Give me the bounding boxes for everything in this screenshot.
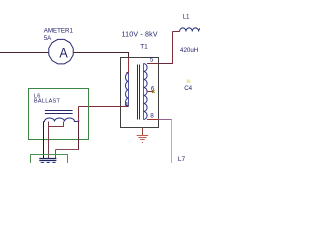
svg-text:420uH: 420uH: [180, 47, 198, 54]
wire: pin 5 out to L1 riser: [159, 63, 174, 65]
wire: ballast left lead down to starter box: [43, 122, 45, 159]
svg-text:AMETER1: AMETER1: [44, 28, 74, 35]
ammeter AMETER1 body: [49, 39, 73, 63]
wire: junction down then left to starter box: [78, 121, 80, 150]
inductor L1 (clipped at right edge): [180, 28, 205, 32]
ballast L6 box: [29, 89, 89, 140]
wire: drop into transformer primary top: [128, 53, 130, 59]
ballast inductor L6 coil: [44, 118, 79, 122]
transformer T1 primary top tick: [126, 72, 128, 74]
svg-text:5: 5: [150, 56, 154, 63]
svg-text:5A: 5A: [44, 35, 52, 42]
wire: ballast tap jog down-left to starter box: [48, 122, 50, 128]
ground wire stub: [142, 128, 144, 136]
starter box (clipped at bottom edge): [31, 155, 68, 167]
svg-text:C4: C4: [184, 85, 192, 92]
svg-text:BALLAST: BALLAST: [34, 99, 61, 105]
pin 6 stub wire: [147, 91, 153, 93]
transformer T1 secondary winding chord: [143, 64, 145, 120]
svg-text:8: 8: [150, 113, 154, 120]
svg-text:110V - 8kV: 110V - 8kV: [122, 32, 158, 39]
transformer T1 primary winding: [126, 73, 129, 107]
svg-text:L1: L1: [183, 13, 190, 20]
transformer T1 secondary winding: [144, 64, 148, 120]
pin 6 no-connect X marker: [152, 90, 155, 93]
svg-text:4: 4: [125, 101, 129, 108]
wire: ammeter to transformer primary: [74, 52, 129, 54]
svg-text:A: A: [59, 45, 68, 61]
starter core lines: [39, 158, 56, 160]
transformer T1 primary winding chord: [128, 73, 130, 107]
transformer T1 box: [121, 58, 159, 128]
svg-text:L7: L7: [178, 156, 186, 163]
pin 8 stub wire: [147, 119, 159, 121]
ground symbol: [137, 136, 149, 143]
wire: AC line input from left edge to ammeter: [0, 52, 49, 54]
svg-text:T1: T1: [140, 44, 148, 51]
pin 5 stub wire: [147, 63, 159, 65]
junction node (magenta dot): [77, 120, 79, 122]
transformer T1 core: [137, 65, 139, 120]
ballast core lines: [45, 110, 73, 112]
wire: pin 8 out to L7 drop: [159, 119, 173, 121]
wire: transformer pin 4 to ballast junction: [79, 106, 129, 108]
starter coil (clipped at bottom edge): [40, 162, 57, 167]
ERC marker near C4: [187, 80, 191, 84]
